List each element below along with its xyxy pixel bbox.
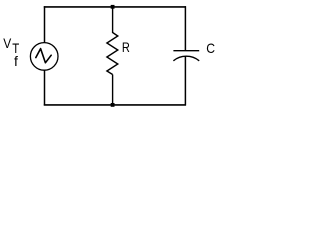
junction dot bottom (middle branch / bottom rail): [111, 103, 115, 107]
wire middle branch lower (resistor to bottom rail): [112, 75, 114, 106]
AC source sine waveform symbol: [36, 49, 51, 63]
AC source VT circle: [30, 43, 58, 71]
capacitor C bottom plate (curved): [173, 56, 199, 61]
svg-text:R: R: [122, 39, 130, 55]
svg-text:C: C: [206, 40, 215, 56]
wire middle branch upper (top rail to resistor): [112, 7, 114, 33]
junction dot top (middle branch / top rail): [111, 5, 115, 9]
wire right branch upper (top rail to capacitor top plate): [184, 6, 186, 50]
wire bottom (return node): [44, 104, 186, 106]
wire right branch lower (capacitor to bottom rail): [184, 56, 186, 105]
svg-text:V: V: [3, 35, 12, 51]
svg-text:f: f: [14, 53, 18, 69]
wire left branch upper (top rail to source top): [44, 6, 46, 43]
capacitor C top plate (straight): [173, 50, 199, 52]
wire top (node between source, R, C): [44, 6, 186, 8]
wire left branch lower (source bottom to bottom rail): [44, 70, 46, 106]
resistor R zigzag: [107, 33, 118, 75]
